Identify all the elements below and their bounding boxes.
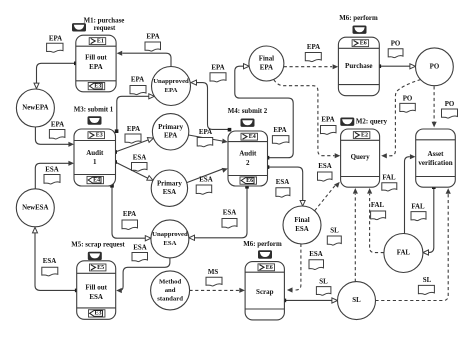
wire Asset verification to FAL (423, 185, 436, 255)
doc label ESA 2 (44, 166, 60, 184)
svg-text:FAL: FAL (397, 250, 411, 257)
svg-text:E6: E6 (266, 265, 273, 271)
svg-text:M5: scrap request: M5: scrap request (71, 242, 125, 249)
wire Primary EPA to Audit 2 (189, 135, 228, 144)
transition Scrap (245, 262, 284, 320)
place Final ESA (283, 206, 321, 244)
transition Fill out EPA (76, 35, 116, 92)
svg-text:Audit: Audit (239, 150, 257, 158)
doc label ESA 7 (132, 245, 148, 262)
doc label EPA 9 (321, 116, 337, 134)
svg-text:EPA: EPA (321, 116, 334, 123)
svg-text:ESA: ESA (45, 166, 58, 173)
transition Audit 1 (74, 129, 116, 186)
doc label SL 3 (418, 277, 434, 294)
doc label EPA 3 (210, 65, 226, 82)
message icon M5 envelope (88, 252, 101, 259)
doc label EPA 8 (272, 127, 289, 144)
wire Scrap to SL (283, 298, 338, 303)
svg-text:and: and (165, 287, 176, 294)
wire Audit 1 to Primary ESA (113, 160, 153, 180)
wire Unapproved ESA to Fill out ESA (116, 258, 170, 293)
transition Purchase (338, 37, 379, 95)
svg-text:1: 1 (93, 158, 97, 166)
svg-text:ESA: ESA (133, 155, 146, 162)
svg-text:FAL: FAL (371, 202, 385, 209)
wire FAL to Query dashed (367, 188, 384, 253)
doc label ESA 5 (222, 209, 237, 228)
svg-text:ESA: ESA (163, 189, 176, 196)
transition Audit 2 (228, 131, 268, 186)
wire Final EPA to Purchase dashed (284, 64, 339, 69)
wire SL to Query dashed (353, 188, 358, 282)
svg-text:SL: SL (352, 297, 361, 304)
svg-text:EPA: EPA (164, 133, 177, 140)
svg-text:EPA: EPA (127, 126, 140, 133)
message icon M6 bottom envelope (259, 251, 272, 258)
doc label FAL 2 (371, 202, 386, 220)
svg-text:ESA: ESA (133, 245, 146, 252)
svg-text:ESA: ESA (309, 251, 322, 258)
svg-text:PO: PO (391, 40, 401, 47)
svg-text:EPA: EPA (260, 64, 273, 71)
svg-text:Fill out: Fill out (85, 54, 107, 62)
svg-text:SL: SL (330, 228, 339, 235)
place Primary EPA (152, 114, 188, 150)
svg-text:ESA: ESA (89, 293, 103, 301)
place NewEPA (16, 89, 54, 127)
wire NewEPA to Audit 1 (35, 127, 74, 147)
doc label ESA 8 (42, 258, 58, 276)
svg-text:EPA: EPA (199, 129, 212, 136)
svg-text:M3: submit 1: M3: submit 1 (74, 107, 114, 114)
svg-text:E4: E4 (93, 177, 100, 183)
svg-text:Query: Query (351, 153, 371, 161)
doc label EPA 7 (197, 129, 213, 147)
svg-text:E2: E2 (361, 133, 368, 139)
svg-text:ESA: ESA (318, 163, 331, 170)
doc label PO 3 (442, 101, 458, 118)
place NewESA (16, 189, 54, 227)
doc label ESA 1 (132, 155, 148, 172)
message icon M6 top envelope (353, 26, 366, 33)
transition Query (341, 129, 380, 187)
svg-text:standard: standard (157, 296, 183, 303)
svg-text:M2: query: M2: query (356, 119, 388, 126)
svg-text:PO: PO (445, 101, 455, 108)
wire Audit 1 to Unapproved EPA (115, 94, 155, 133)
svg-text:SL: SL (423, 277, 432, 284)
doc label PO 1 (388, 40, 403, 57)
svg-text:MS: MS (208, 269, 219, 276)
svg-text:EPA: EPA (51, 121, 64, 128)
svg-text:EPA: EPA (165, 87, 178, 94)
svg-text:request: request (94, 25, 116, 32)
svg-text:E5: E5 (97, 265, 104, 271)
wire Audit 2 to Unapproved ESA (189, 185, 249, 240)
transition Fill out ESA (77, 261, 116, 320)
svg-text:PO: PO (403, 95, 413, 102)
svg-text:EPA: EPA (89, 63, 102, 71)
message icon M3 envelope (88, 117, 101, 124)
message icon M2 envelope (341, 118, 354, 125)
doc label EPA 1 (47, 35, 63, 52)
svg-text:FAL: FAL (411, 203, 425, 210)
place PO (416, 48, 454, 86)
svg-text:M4: submit 2: M4: submit 2 (228, 108, 268, 115)
svg-text:M6: perform: M6: perform (243, 241, 282, 248)
wire Final ESA to Scrap dashed (287, 244, 301, 293)
place Unapproved EPA (152, 67, 191, 106)
wire Audit 2 to Final EPA (235, 64, 293, 160)
place Method and standard (151, 271, 190, 310)
svg-text:ESA: ESA (295, 226, 308, 233)
wire NewESA to Audit 1 (35, 161, 74, 189)
doc label FAL 1 (382, 175, 397, 192)
doc label EPA 4 (305, 44, 321, 62)
svg-text:Scrap: Scrap (256, 288, 274, 296)
svg-text:E6: E6 (246, 178, 253, 184)
doc label SL 2 (316, 278, 331, 295)
svg-text:Fill out: Fill out (85, 284, 107, 292)
message icon M1 envelope (73, 24, 86, 31)
svg-text:E1: E1 (97, 39, 104, 45)
doc label ESA 4 (276, 179, 290, 197)
doc label ESA 6 (318, 163, 333, 181)
transition Asset verification (416, 129, 456, 187)
place Unapproved ESA (151, 220, 189, 258)
svg-text:Unapproved: Unapproved (152, 231, 188, 238)
svg-text:EPA: EPA (123, 211, 136, 218)
svg-text:Asset: Asset (428, 150, 445, 158)
svg-text:E6: E6 (360, 41, 367, 47)
wire Audit 2 to Unapproved EPA (191, 80, 231, 132)
place Primary ESA (151, 170, 187, 206)
place FAL (384, 234, 423, 273)
place SL (338, 282, 376, 320)
svg-text:ESA: ESA (163, 240, 176, 247)
svg-text:E3: E3 (95, 311, 102, 317)
svg-text:NewEPA: NewEPA (22, 105, 48, 112)
wire PO to Asset verification dashed (432, 86, 437, 127)
svg-text:Unapproved: Unapproved (153, 78, 189, 85)
svg-text:EPA: EPA (146, 33, 159, 40)
place Final EPA (249, 46, 284, 81)
doc label EPA 10 (130, 77, 146, 95)
doc label EPA 6 (125, 126, 141, 143)
svg-text:ESA: ESA (223, 209, 236, 216)
wire Audit 2 to Final ESA (266, 165, 306, 206)
svg-text:SL: SL (319, 278, 328, 285)
svg-text:PO: PO (430, 63, 440, 70)
doc label EPA 2 (145, 33, 161, 51)
svg-text:M6: perform: M6: perform (339, 15, 378, 22)
message icon M4 envelope (241, 119, 254, 126)
doc label EPA 11 (122, 211, 138, 230)
svg-text:Purchase: Purchase (345, 62, 372, 70)
svg-text:ESA: ESA (43, 258, 56, 265)
svg-text:Final: Final (294, 217, 309, 224)
svg-text:EPA: EPA (273, 127, 286, 134)
wire Method and standard to Scrap dashed (189, 288, 245, 293)
svg-text:EPA: EPA (211, 65, 224, 72)
wire Purchase to PO (378, 64, 416, 69)
svg-text:verification: verification (418, 159, 452, 167)
svg-text:FAL: FAL (382, 175, 396, 182)
svg-text:E4: E4 (249, 134, 256, 140)
svg-text:ESA: ESA (199, 176, 212, 183)
svg-text:E3: E3 (96, 133, 103, 139)
svg-text:2: 2 (246, 159, 250, 167)
svg-text:Method: Method (159, 278, 182, 285)
svg-text:Final: Final (259, 56, 274, 63)
wire Audit 1 to Primary EPA (113, 138, 153, 154)
svg-text:EPA: EPA (49, 35, 62, 42)
doc label FAL 3 (411, 203, 426, 220)
svg-text:Audit: Audit (86, 149, 104, 157)
svg-text:E3: E3 (94, 83, 101, 89)
wire Final EPA to Query dashed (274, 80, 341, 159)
doc label ESA 3 (196, 176, 213, 194)
wire Audit 1 to Unapproved ESA (110, 184, 151, 241)
svg-text:EPA: EPA (307, 44, 320, 51)
doc label PO 2 (400, 95, 416, 112)
svg-text:Primary: Primary (158, 124, 183, 131)
wire Primary ESA to Audit 2 (187, 168, 228, 183)
wire Fill out EPA to NewEPA (34, 62, 78, 89)
svg-text:Primary: Primary (157, 180, 182, 187)
wire Final ESA to Query dashed (315, 182, 340, 211)
doc label MS 1 (206, 269, 222, 286)
doc label ESA 9 (309, 251, 324, 269)
wire Unapproved EPA to Fill out EPA (117, 51, 171, 67)
wire SL to Asset verification dashed (375, 188, 450, 300)
wire Fill out ESA to NewESA (33, 227, 79, 292)
wire FAL to Asset verification (405, 154, 416, 234)
svg-text:NewESA: NewESA (22, 204, 48, 211)
svg-text:ESA: ESA (276, 179, 289, 186)
svg-text:EPA: EPA (131, 77, 144, 84)
doc label EPA 5 (49, 121, 65, 139)
doc label SL 1 (327, 228, 341, 246)
wire PO to Query dashed (381, 80, 421, 159)
svg-text:M1: purchase: M1: purchase (84, 17, 125, 24)
